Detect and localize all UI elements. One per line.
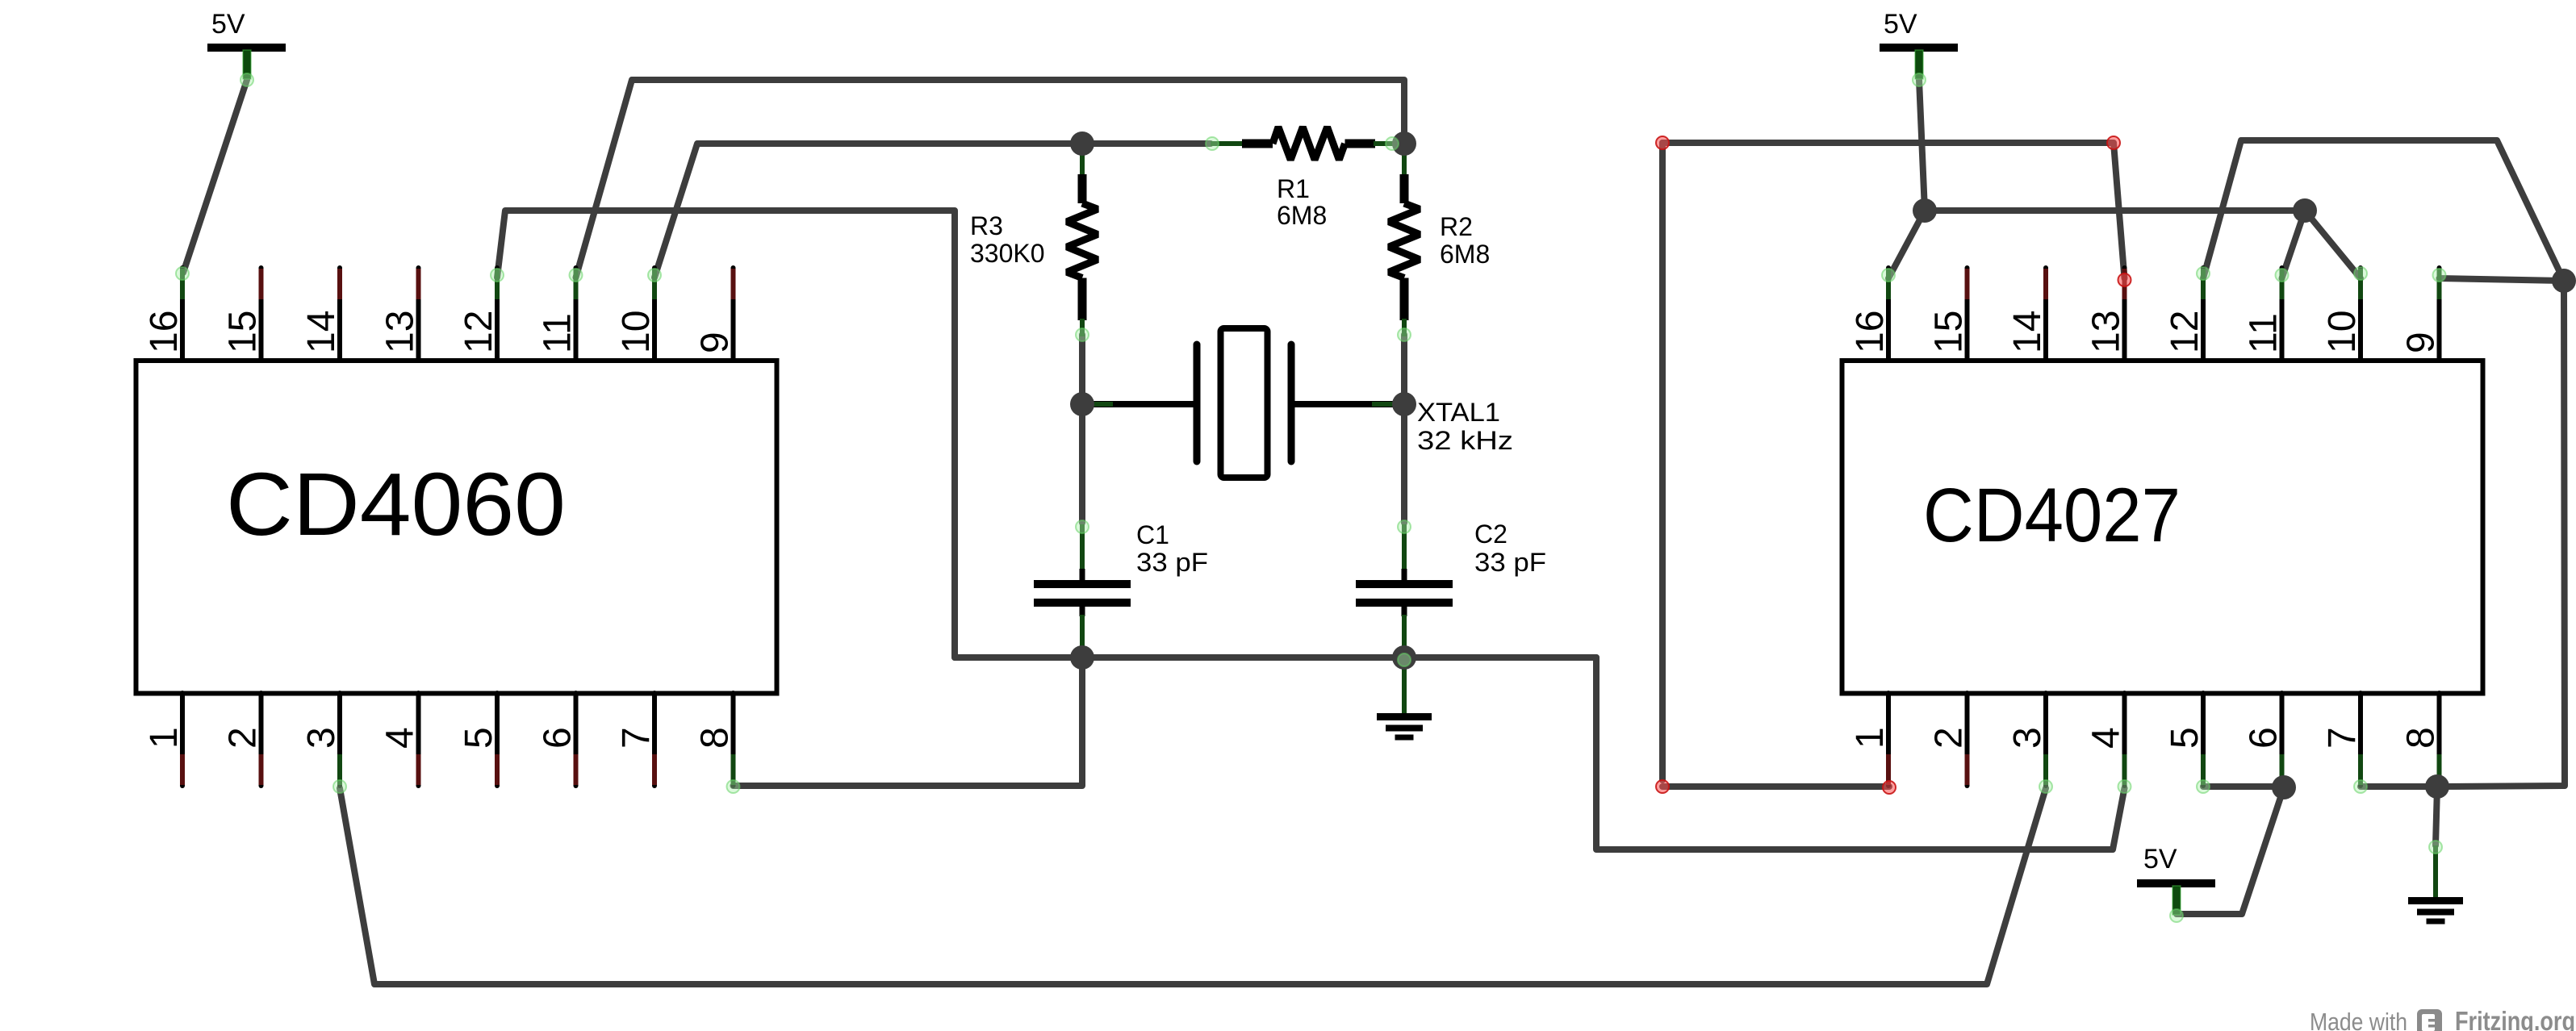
wire J2 to CD4027 pin11 — [2282, 211, 2306, 278]
wire CD4060 pin3 to CD4027 pin3 — [340, 788, 2046, 984]
node CD4027 pin6 — [2272, 775, 2296, 799]
power 5V (left) — [207, 9, 286, 79]
wire pin8 node to ground — [2436, 787, 2437, 845]
svg-text:7: 7 — [615, 727, 658, 749]
wire J1 to CD4027 pin16 — [1888, 211, 1925, 278]
wire CD4060 pin12 to crystal C1 node — [497, 211, 955, 657]
wire unrouted net horizontal top — [1662, 140, 2114, 146]
wire pin6 node to 5V — [2177, 787, 2284, 914]
CD4060 top pin tip — [337, 269, 342, 299]
CD4060 bottom pin tip — [731, 754, 736, 785]
CD4060 bottom pin tip — [416, 754, 421, 785]
CD4027 bottom pin tip — [1886, 754, 1891, 785]
CD4060 bottom pin tip — [259, 754, 264, 785]
svg-text:R3: R3 — [970, 211, 1003, 240]
ground (CD4027 pin8) — [2408, 845, 2463, 925]
svg-text:16: 16 — [1849, 311, 1892, 353]
wire CD4060 pin10 to R3 node — [654, 144, 1082, 278]
wire J2 to CD4027 pin10 — [2305, 211, 2361, 278]
IC CD4060 pin 9 (top) — [731, 268, 736, 361]
IC CD4060 pin 2 (bottom) — [259, 693, 264, 786]
svg-text:5V: 5V — [2143, 844, 2177, 874]
CD4060 bottom pin tip — [495, 754, 500, 785]
CD4060 top pin tip — [731, 269, 736, 299]
svg-text:Fritzing.org: Fritzing.org — [2455, 1006, 2575, 1031]
node R3/R1 — [1070, 131, 1094, 156]
svg-text:XTAL1: XTAL1 — [1417, 398, 1500, 427]
svg-text:C1: C1 — [1136, 520, 1169, 549]
IC CD4027 pin 16 (top) — [1886, 268, 1891, 361]
resistor R3 — [970, 155, 1098, 336]
svg-text:C2: C2 — [1474, 520, 1508, 549]
wire bus to CD4027 pin4 — [1596, 657, 2125, 849]
wire CD4060 pin11 to R1-R2 node — [576, 80, 1405, 278]
IC CD4060 pin 13 (top) — [416, 268, 421, 361]
CD4027 top pin tip — [1886, 269, 1891, 299]
wire CD4027 pin9 to right node — [2440, 278, 2565, 281]
IC CD4027 body — [1842, 361, 2483, 694]
svg-text:3: 3 — [300, 727, 343, 749]
IC CD4060 pin 15 (top) — [259, 268, 264, 361]
wire oscillator bottom bus — [955, 654, 1596, 661]
CD4060 top pin tip — [259, 269, 264, 299]
wire R2 to C2 — [1401, 335, 1407, 523]
node right top — [2552, 269, 2576, 293]
IC CD4060 body — [136, 361, 777, 694]
CD4027 bottom pin tip — [1965, 754, 1970, 785]
svg-text:5: 5 — [2164, 727, 2206, 749]
IC CD4027 pin 8 (bottom) — [2437, 693, 2442, 786]
IC CD4060 pin 4 (bottom) — [416, 693, 421, 786]
IC CD4060 pin 10 (top) — [652, 268, 657, 361]
IC CD4027 pin 14 (top) — [2043, 268, 2048, 361]
wire node to CD4060 pin8 — [734, 657, 1083, 786]
wire R3 to C1 — [1079, 335, 1085, 523]
svg-text:R1: R1 — [1277, 174, 1310, 203]
wire to CD4027 pin1 — [1662, 783, 1889, 790]
CD4060 top pin tip — [416, 269, 421, 299]
power 5V (right) — [1880, 9, 1958, 79]
ground (C2 / crystal node) — [1377, 662, 1432, 741]
svg-text:5V: 5V — [1884, 9, 1917, 40]
svg-text:14: 14 — [2006, 311, 2049, 353]
svg-text:5V: 5V — [211, 9, 245, 40]
svg-text:8: 8 — [2400, 727, 2443, 749]
wire 5V to node J1 — [1919, 80, 1925, 211]
svg-text:10: 10 — [615, 311, 658, 353]
IC CD4060 pin 5 (bottom) — [495, 693, 500, 786]
IC CD4027 pin 2 (bottom) — [1965, 693, 1970, 786]
CD4060 bottom pin tip — [652, 754, 657, 785]
node XTAL right — [1392, 392, 1416, 416]
CD4027 top pin tip — [2358, 269, 2363, 299]
CD4027 bottom pin tip — [2043, 754, 2048, 785]
CD4060 top pin tip — [495, 269, 500, 299]
CD4060 top pin tip — [652, 269, 657, 299]
IC CD4027 pin 9 (top) — [2437, 268, 2442, 361]
svg-text:7: 7 — [2321, 727, 2364, 749]
IC CD4027 pin 13 (top) — [2122, 268, 2127, 361]
resistor R2 — [1389, 155, 1490, 336]
svg-text:13: 13 — [379, 311, 422, 353]
CD4027 bottom pin tip — [2201, 754, 2206, 785]
IC CD4027 pin 15 (top) — [1965, 268, 1970, 361]
svg-text:6: 6 — [2243, 727, 2285, 749]
svg-text:33 pF: 33 pF — [1474, 548, 1546, 577]
wire unrouted net vertical — [1659, 143, 1666, 780]
IC CD4060 pin 1 (bottom) — [180, 693, 185, 786]
svg-text:9: 9 — [694, 332, 737, 353]
wire right node down to pin8 node — [2437, 281, 2565, 787]
svg-text:330K0: 330K0 — [970, 239, 1045, 268]
IC CD4060 pin 8 (bottom) — [731, 693, 736, 786]
IC CD4027 pin 7 (bottom) — [2358, 693, 2363, 786]
wire endpoints (red) — [1656, 136, 1669, 149]
CD4027 bottom pin tip — [2358, 754, 2363, 785]
svg-text:11: 11 — [2243, 313, 2285, 353]
IC CD4027 pin 5 (bottom) — [2201, 693, 2206, 786]
svg-text:14: 14 — [300, 311, 343, 353]
CD4027 top pin tip — [2437, 269, 2442, 299]
svg-text:1: 1 — [1849, 727, 1892, 749]
IC CD4060 pin 11 (top) — [574, 268, 579, 361]
svg-text:6M8: 6M8 — [1277, 201, 1327, 230]
IC CD4027 pin 4 (bottom) — [2122, 693, 2127, 786]
svg-text:12: 12 — [458, 311, 500, 353]
CD4027 bottom pin tip — [2437, 754, 2442, 785]
svg-text:4: 4 — [379, 727, 422, 749]
IC CD4060 pin 16 (top) — [180, 268, 185, 361]
connection points (green) — [240, 73, 253, 86]
svg-text:13: 13 — [2085, 311, 2128, 353]
svg-text:6: 6 — [537, 727, 579, 749]
CD4060 bottom pin tip — [180, 754, 185, 785]
CD4027 top pin tip — [2122, 269, 2127, 299]
IC CD4027 pin 10 (top) — [2358, 268, 2363, 361]
svg-text:2: 2 — [222, 727, 265, 749]
svg-text:11: 11 — [537, 313, 579, 353]
svg-text:2: 2 — [1928, 727, 1971, 749]
svg-text:33 pF: 33 pF — [1136, 548, 1208, 577]
IC CD4060 pin 7 (bottom) — [652, 693, 657, 786]
svg-text:9: 9 — [2400, 332, 2443, 353]
wire CD4027 pin7 to pin8 — [2361, 783, 2437, 790]
footer Made with Fritzing.org — [2310, 1006, 2575, 1031]
wire CD4027 pin12 to right node — [2203, 140, 2564, 281]
power 5V (bottom) — [2137, 844, 2215, 915]
IC CD4060 pin 3 (bottom) — [337, 693, 342, 786]
svg-text:6M8: 6M8 — [1440, 240, 1490, 269]
svg-text:16: 16 — [143, 311, 186, 353]
node XTAL left — [1070, 392, 1094, 416]
IC CD4027 pin 1 (bottom) — [1886, 693, 1891, 786]
IC CD4027 pin 11 (top) — [2280, 268, 2285, 361]
node R1/R2 — [1392, 131, 1416, 156]
svg-text:R2: R2 — [1440, 212, 1473, 241]
resistor R1 — [1211, 127, 1394, 231]
wire CD4027 pin5 to pin6 — [2203, 783, 2284, 790]
node J2 — [2293, 198, 2317, 223]
CD4060 top pin tip — [180, 269, 185, 299]
svg-text:15: 15 — [222, 311, 265, 353]
svg-text:CD4060: CD4060 — [226, 455, 566, 554]
capacitor C2 — [1356, 520, 1546, 647]
node C1 bottom — [1070, 645, 1094, 670]
svg-text:32 kHz: 32 kHz — [1417, 426, 1513, 455]
IC CD4027 pin 3 (bottom) — [2043, 693, 2048, 786]
wire 5V to CD4060 pin16 — [183, 80, 247, 273]
CD4027 top pin tip — [2043, 269, 2048, 299]
CD4060 bottom pin tip — [574, 754, 579, 785]
svg-text:1: 1 — [143, 727, 186, 749]
CD4027 top pin tip — [1965, 269, 1970, 299]
CD4027 top pin tip — [2201, 269, 2206, 299]
CD4060 bottom pin tip — [337, 754, 342, 785]
CD4027 bottom pin tip — [2280, 754, 2285, 785]
IC CD4060 pin 12 (top) — [495, 268, 500, 361]
svg-text:12: 12 — [2164, 311, 2206, 353]
wire J1 to J2 — [1925, 207, 2305, 214]
wire to CD4027 pin13 — [2114, 143, 2125, 278]
svg-text:3: 3 — [2006, 727, 2049, 749]
svg-text:Made with: Made with — [2310, 1008, 2407, 1031]
IC CD4060 pin 14 (top) — [337, 268, 342, 361]
CD4060 top pin tip — [574, 269, 579, 299]
CD4027 top pin tip — [2280, 269, 2285, 299]
node C2/ground — [1392, 645, 1416, 670]
capacitor C1 — [1034, 520, 1208, 647]
IC CD4060 pin 6 (bottom) — [574, 693, 579, 786]
IC CD4027 pin 12 (top) — [2201, 268, 2206, 361]
svg-text:15: 15 — [1928, 311, 1971, 353]
svg-text:10: 10 — [2321, 311, 2364, 353]
crystal XTAL1 — [1092, 328, 1513, 478]
node J1 5V — [1913, 198, 1937, 223]
wire node to R1 left — [1082, 140, 1211, 147]
svg-text:4: 4 — [2085, 727, 2128, 749]
node CD4027 pin8 — [2425, 774, 2449, 799]
svg-text:CD4027: CD4027 — [1923, 473, 2181, 558]
IC CD4027 pin 6 (bottom) — [2280, 693, 2285, 786]
svg-text:8: 8 — [694, 727, 737, 749]
svg-text:5: 5 — [458, 727, 500, 749]
CD4027 bottom pin tip — [2122, 754, 2127, 785]
